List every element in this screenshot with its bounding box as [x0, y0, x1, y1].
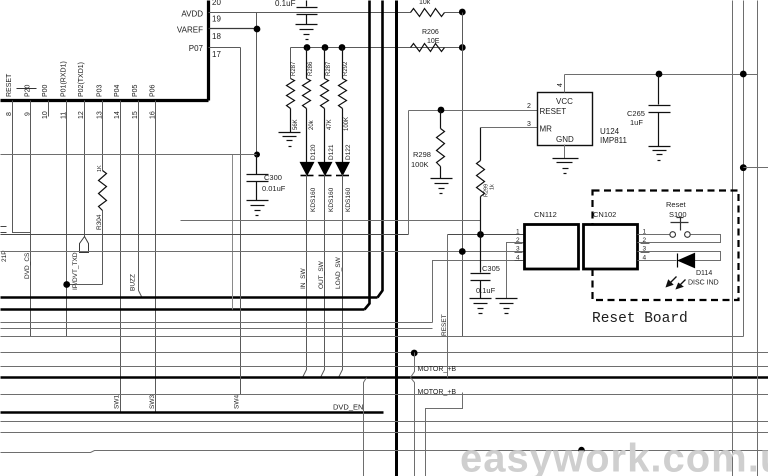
svg-text:0.1uF: 0.1uF [275, 0, 296, 8]
junction rail R287 [322, 44, 329, 51]
bus horizontal H1 [1, 296, 378, 299]
svg-text:D121: D121 [328, 144, 335, 160]
svg-text:KDS160: KDS160 [310, 187, 317, 212]
svg-text:100K: 100K [344, 117, 350, 131]
switch S100 actuator [671, 218, 689, 231]
svg-text:SW3: SW3 [149, 395, 156, 409]
wire pin2 CN112 to ground [507, 243, 525, 299]
bus vertical V1 [365, 1, 370, 310]
svg-text:2: 2 [516, 237, 520, 244]
wire vertical right x757 [757, 1, 759, 476]
svg-text:RESET: RESET [540, 107, 567, 116]
wire RESET branch down x447 [447, 235, 449, 378]
svg-text:R304: R304 [96, 214, 103, 230]
svg-text:100K: 100K [411, 160, 429, 169]
pin 9 P20 / DVD_CS wire [30, 101, 32, 337]
svg-text:10: 10 [42, 111, 49, 119]
resistor R285 56K [287, 79, 295, 133]
junction C265 [656, 71, 663, 78]
capacitor C300 [247, 155, 269, 201]
ground C300 [247, 201, 269, 216]
net flag IP/DVT_TXD on pin12 [80, 237, 89, 253]
left edge tick 2 [1, 232, 7, 234]
ground U124 [553, 159, 579, 174]
Reset Board dashed border [593, 191, 739, 301]
junction R299 bottom [477, 231, 484, 238]
svg-text:11: 11 [61, 112, 68, 119]
svg-text:SW1: SW1 [114, 395, 121, 409]
svg-text:S100: S100 [669, 210, 687, 219]
wire IN_SW [303, 175, 307, 378]
junction VAREF [254, 26, 261, 33]
svg-text:P01(RXD1): P01(RXD1) [61, 61, 68, 97]
pin 14 SW1 wire [120, 101, 122, 413]
resistor 10k horizontal [411, 9, 445, 17]
svg-text:P04: P04 [114, 84, 121, 97]
svg-text:1uF: 1uF [630, 118, 643, 127]
ground C265 [649, 147, 671, 161]
stub below junction [581, 451, 583, 458]
CN102 pin underlines [641, 235, 650, 261]
svg-text:R206: R206 [422, 29, 439, 36]
svg-text:R287: R287 [326, 61, 332, 76]
bottom pins of IC [13, 89, 156, 413]
svg-text:IP/DVT_TXD: IP/DVT_TXD [72, 252, 79, 290]
CN112 pin underlines [515, 235, 523, 261]
svg-text:17: 17 [212, 50, 221, 59]
svg-text:13: 13 [96, 111, 103, 119]
svg-text:OUT_SW: OUT_SW [318, 260, 325, 289]
pin 11 P01 wire [66, 101, 68, 337]
svg-text:3: 3 [527, 121, 531, 128]
svg-text:DISC IND: DISC IND [688, 280, 719, 287]
svg-text:D122: D122 [345, 144, 352, 160]
wire MR pin3 [481, 127, 538, 129]
svg-text:IN_SW: IN_SW [300, 268, 307, 289]
svg-text:easywork.com.ua: easywork.com.ua [460, 437, 768, 476]
wire y154 [1, 154, 257, 156]
rotated pin numbers below IC [6, 111, 156, 119]
svg-text:MOTOR_+B: MOTOR_+B [418, 389, 457, 396]
wire vertical right x732 [732, 1, 734, 476]
diode D120 [301, 163, 314, 176]
svg-text:C300: C300 [264, 173, 282, 182]
svg-text:VAREF: VAREF [177, 26, 203, 35]
resistor R299 [477, 128, 485, 235]
svg-text:AVDD: AVDD [181, 10, 203, 19]
svg-text:VCC: VCC [556, 97, 573, 106]
ground C305 [470, 299, 492, 314]
wire vertical right x743 [743, 1, 745, 337]
svg-text:D120: D120 [310, 144, 317, 160]
svg-text:KDS160: KDS160 [345, 187, 352, 212]
rotated pin names inside IC [6, 61, 156, 97]
svg-text:19: 19 [212, 15, 221, 24]
svg-text:1K: 1K [97, 165, 103, 172]
wire R304 to P01 junction [67, 284, 103, 286]
svg-text:KDS160: KDS160 [328, 187, 335, 212]
capacitor 0.1uF top [297, 1, 318, 25]
pin 13 R304 lower lead [102, 211, 104, 285]
svg-text:0.01uF: 0.01uF [262, 184, 286, 193]
CN102 pin numbers [643, 229, 647, 262]
svg-text:2: 2 [527, 103, 531, 110]
junction x743 y167 [740, 164, 747, 171]
junction rail R286 [304, 44, 311, 51]
bus horizontal H2 [1, 308, 365, 311]
svg-text:14: 14 [114, 111, 121, 119]
junction 10k [459, 9, 466, 16]
diode D121 [319, 163, 332, 176]
svg-text:DVD_CS: DVD_CS [24, 252, 31, 279]
wire RESET net right segment [448, 234, 525, 236]
wire vertical x414 lower [411, 378, 415, 476]
svg-text:BUZZ: BUZZ [130, 274, 137, 291]
svg-text:P00: P00 [42, 84, 49, 97]
resistor R298 [437, 111, 445, 179]
resistor R292 100K [339, 48, 347, 163]
svg-text:47K: 47K [327, 119, 333, 130]
svg-text:U124: U124 [600, 127, 620, 136]
wire CN102 pin1 to switch [638, 234, 670, 236]
wire divider vertical [462, 13, 464, 337]
wire pin4 CN112 [433, 261, 525, 323]
wire 10k to divider node [445, 12, 463, 14]
svg-text:20: 20 [212, 0, 221, 7]
wire vertical x425 [426, 393, 463, 476]
svg-text:R287: R287 [291, 61, 297, 76]
svg-text:LOAD_SW: LOAD_SW [335, 256, 342, 289]
wire CN102 pin4 to diode [638, 260, 677, 262]
connector CN102 [584, 225, 638, 270]
node AVDD/C300 vertical [256, 13, 258, 155]
svg-text:P02(TXD1): P02(TXD1) [78, 62, 85, 97]
svg-text:P06: P06 [149, 84, 156, 97]
wire P07 / SW4 vertical [240, 48, 242, 395]
svg-text:18: 18 [212, 32, 221, 41]
svg-text:9: 9 [25, 112, 32, 116]
wire y337 [1, 336, 744, 338]
svg-text:8: 8 [6, 112, 13, 116]
svg-text:D114: D114 [696, 270, 712, 277]
svg-text:C265: C265 [627, 109, 645, 118]
left edge tick 1 [1, 226, 7, 228]
ground R298 [431, 179, 453, 194]
svg-text:12: 12 [78, 111, 85, 119]
wire VCC pin4 [564, 75, 566, 93]
junction C300 [254, 152, 260, 158]
wire RESET riser x408 [408, 111, 410, 235]
wire y353 [1, 352, 768, 354]
wire CN102 pin3 loop [638, 252, 721, 261]
resistor R287 47K [321, 48, 329, 163]
wire y450 jog [1, 451, 768, 453]
pin 8 RESET stub [13, 101, 31, 233]
capacitor C265 [649, 75, 671, 147]
svg-text:Reset Board: Reset Board [592, 311, 688, 327]
svg-text:CN112: CN112 [534, 210, 557, 219]
wire pin3 net long [1, 251, 525, 253]
junction R298 [438, 107, 445, 114]
diode D114 LED [678, 254, 695, 268]
svg-text:1k: 1k [490, 184, 496, 190]
wire y433 [1, 432, 768, 434]
SEC3 [1, 155, 768, 476]
pin 15 BUZZ wire [139, 101, 142, 297]
ground 56K [279, 133, 301, 147]
svg-text:16: 16 [149, 111, 156, 119]
svg-text:DVD_EN: DVD_EN [333, 403, 363, 412]
resistor R286 20k [303, 48, 311, 163]
junction R206 [459, 44, 466, 51]
ground of 0.1uF cap [296, 25, 318, 40]
svg-text:R298: R298 [413, 150, 431, 159]
svg-text:P07: P07 [189, 44, 204, 53]
wire switch to right rail [638, 235, 721, 243]
svg-text:R292: R292 [343, 61, 349, 76]
bus horizontal DVD_EN [1, 411, 384, 414]
wire pin4 net y322 [1, 322, 433, 324]
svg-text:21P: 21P [1, 250, 8, 262]
wire x743 to right edge [744, 167, 768, 169]
wire y220 [181, 220, 481, 222]
svg-text:10E: 10E [427, 38, 440, 45]
pin 17 P07 wire [209, 47, 241, 49]
svg-text:56K: 56K [293, 119, 299, 130]
svg-text:C305: C305 [482, 264, 500, 273]
svg-text:4: 4 [557, 83, 564, 87]
LED arrows [667, 277, 686, 289]
wire GND pin [564, 145, 566, 159]
tick RESET-P20 [17, 88, 37, 90]
wire resistor rail [291, 47, 463, 49]
switch S100 contact a [670, 232, 676, 238]
pin 10 P00 stub [48, 101, 50, 117]
svg-text:SW4: SW4 [234, 395, 241, 409]
resistor R304 [99, 171, 107, 211]
svg-text:R286: R286 [308, 61, 314, 76]
svg-text:3: 3 [516, 246, 520, 253]
wire y421 [1, 421, 768, 423]
pin 13 P03 wire upper [102, 101, 104, 171]
wire y394 [1, 394, 768, 396]
junction rail R292 [339, 44, 346, 51]
wire stub vertical x232 [232, 155, 234, 310]
wire U124 RESET to R298 [409, 110, 538, 112]
svg-text:10k: 10k [419, 0, 431, 6]
wire y366 [1, 366, 768, 368]
ground pin2 [496, 299, 518, 314]
CN112 pin numbers [516, 229, 520, 262]
bus horizontal MOTOR [1, 376, 768, 379]
svg-text:15: 15 [132, 111, 139, 119]
svg-text:MR: MR [540, 125, 553, 134]
capacitor C305 [471, 235, 491, 299]
wire y328 [1, 328, 433, 330]
svg-text:RESET: RESET [6, 73, 13, 97]
svg-text:IMP811: IMP811 [600, 136, 628, 145]
wire MOTOR flag 1 [411, 353, 415, 378]
svg-text:RESET: RESET [441, 314, 448, 336]
svg-text:Reset: Reset [666, 200, 687, 209]
junction MOTOR_+B [411, 350, 418, 357]
connector CN112 [525, 225, 579, 270]
switch S100 contact b [685, 232, 691, 238]
pin 16 SW3 wire [155, 101, 157, 413]
svg-text:P05: P05 [132, 84, 139, 97]
wire vertical x364 [364, 378, 367, 476]
diode D122 [336, 163, 349, 176]
wire VCC rail [565, 74, 758, 76]
junction VCC rail x743 [740, 71, 747, 78]
wire OUT_SW [321, 175, 325, 378]
junction bottom line [578, 447, 584, 453]
wire RESET net left [1, 234, 409, 236]
wire R206 to divider node [445, 47, 463, 49]
junction P01/R304 [63, 281, 70, 288]
svg-text:P20: P20 [25, 84, 32, 97]
op-amp U124 IMP811 box [538, 93, 593, 146]
pin 18 VAREF wire [209, 28, 257, 30]
pin 19 AVDD wire [209, 12, 411, 14]
resistor R206 [411, 44, 445, 52]
svg-text:CN102: CN102 [593, 210, 616, 219]
svg-text:20k: 20k [309, 119, 315, 130]
svg-text:MOTOR_+B: MOTOR_+B [418, 366, 457, 373]
svg-text:P03: P03 [96, 84, 103, 97]
svg-text:GND: GND [556, 135, 574, 144]
wire 56K resistor top lead [290, 48, 292, 79]
pin 12 P02 wire [84, 101, 86, 237]
bus vertical V2 [378, 1, 383, 298]
wire LOAD_SW [339, 175, 343, 378]
junction pin3 [459, 248, 466, 255]
bus vertical V3 [395, 1, 398, 476]
op-amp U0 microcontroller IC block border [1, 1, 209, 101]
svg-text:0.1uF: 0.1uF [476, 286, 496, 295]
